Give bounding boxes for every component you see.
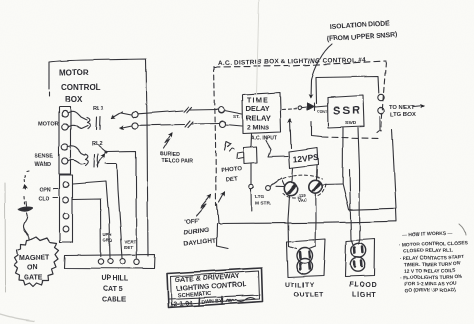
wire junction down to bus bbox=[250, 190, 252, 212]
wire ac input zigzag bbox=[266, 141, 288, 157]
label 115 VAC bbox=[298, 193, 308, 203]
wire RL2 contact down bbox=[105, 164, 123, 259]
svg-text:CONT: CONT bbox=[317, 110, 328, 114]
dashed ring around sockets bbox=[283, 175, 326, 198]
cable break marks lower bbox=[185, 121, 193, 128]
svg-text:DELAY: DELAY bbox=[246, 106, 269, 113]
wire socket L1 to utility bbox=[288, 196, 290, 246]
svg-text:CLO: CLO bbox=[38, 196, 49, 202]
label TO NEXT LTG BOX bbox=[389, 105, 415, 118]
label CONT bbox=[317, 110, 328, 114]
flood light receptacle bbox=[350, 243, 365, 271]
terminal node A bbox=[132, 111, 138, 117]
svg-text:RL2: RL2 bbox=[92, 141, 103, 147]
label UPH GRD bbox=[103, 232, 112, 243]
photo det pointer arrow bbox=[219, 192, 225, 202]
motor control box label bbox=[59, 68, 101, 104]
svg-text:LIGHT: LIGHT bbox=[352, 292, 377, 299]
label PHOTO DET bbox=[221, 166, 243, 183]
bus wire lower bbox=[219, 221, 397, 223]
label CLO bbox=[38, 196, 49, 202]
isolation diode leader arrow bbox=[311, 44, 332, 98]
time delay relay U1 bbox=[243, 93, 282, 134]
terminal strip CAT5 bbox=[64, 255, 155, 269]
title block signature bbox=[226, 298, 255, 302]
relay RL1 coil bbox=[69, 111, 101, 130]
power supply 12VPS bbox=[289, 148, 319, 169]
svg-text:DET: DET bbox=[125, 245, 134, 250]
wire next-box down bbox=[392, 129, 396, 208]
node E bbox=[298, 106, 302, 110]
wire telco pair lower bbox=[138, 124, 219, 126]
svg-text:VAC: VAC bbox=[298, 198, 308, 203]
terminal strip TB1 bbox=[59, 107, 71, 174]
title block text bbox=[175, 273, 248, 299]
utility outlet wires in bbox=[289, 246, 316, 249]
svg-text:LTG: LTG bbox=[255, 194, 265, 200]
arrow to next box bbox=[413, 106, 424, 107]
svg-text:2 MINS: 2 MINS bbox=[247, 125, 270, 132]
terminal node C bbox=[219, 107, 225, 113]
svg-text:FLOOD: FLOOD bbox=[349, 282, 378, 289]
flood light box bbox=[345, 239, 375, 277]
svg-text:CAT 5: CAT 5 bbox=[103, 286, 123, 293]
wire photo det down bbox=[250, 164, 252, 185]
wire 12VPS to socket L2 bbox=[316, 165, 319, 179]
svg-text:UPH: UPH bbox=[103, 232, 112, 237]
svg-text:ST.: ST. bbox=[233, 114, 240, 119]
stray pen mark right bbox=[459, 224, 466, 235]
lamp socket L2 bbox=[309, 180, 322, 193]
scan edge line left bbox=[4, 183, 7, 292]
svg-text:OPN: OPN bbox=[39, 187, 51, 193]
wire socket L2 to utility bbox=[315, 194, 318, 247]
svg-text:WAND: WAND bbox=[34, 162, 51, 168]
bus right end vertical bbox=[395, 208, 398, 221]
svg-text:MOTOR: MOTOR bbox=[59, 68, 89, 77]
lamp socket L1 bbox=[284, 182, 297, 195]
terminal node D bbox=[220, 121, 226, 127]
relay RL2 contacts bbox=[97, 146, 107, 166]
arrow 12VPS up bbox=[290, 119, 291, 149]
wire TB2-2 to cat5 bbox=[73, 199, 101, 257]
svg-text:12-1-04: 12-1-04 bbox=[170, 300, 193, 308]
title block dwn by cell bbox=[199, 296, 223, 306]
wire to time delay in1 bbox=[225, 111, 243, 115]
svg-text:BURIED: BURIED bbox=[160, 152, 180, 158]
gate sensor arrow bbox=[24, 171, 29, 204]
junction node F bbox=[249, 185, 253, 189]
how it works notes bbox=[399, 230, 469, 294]
svg-text:SENSE: SENSE bbox=[34, 154, 53, 160]
svg-text:BOX: BOX bbox=[65, 95, 83, 104]
wire SSR top loop bbox=[316, 77, 379, 105]
svg-text:'OFF': 'OFF' bbox=[184, 217, 201, 225]
svg-text:M STR.: M STR. bbox=[255, 201, 271, 207]
title block outer border bbox=[167, 268, 263, 308]
label RL2 bbox=[92, 141, 103, 147]
AC distrib box dashed outline bottom edge bbox=[322, 137, 381, 139]
photo detector PD1 bbox=[237, 147, 258, 164]
relay RL1 contacts bbox=[111, 112, 132, 129]
off annotation zigzag arrow bbox=[196, 195, 211, 216]
svg-text:A.C. INPUT: A.C. INPUT bbox=[251, 136, 277, 142]
bus wire upper bbox=[349, 208, 396, 210]
AC distrib box dashed outline right edge bbox=[381, 62, 386, 131]
label AC INPUT bbox=[251, 136, 277, 142]
svg-text:OUTLET: OUTLET bbox=[294, 292, 324, 299]
svg-text:RELAY: RELAY bbox=[246, 114, 271, 123]
label VERT DET bbox=[125, 239, 137, 250]
label FLOOD LIGHT bbox=[349, 282, 378, 299]
wire to time delay in2 bbox=[226, 125, 243, 127]
photo det scribble F2 bbox=[224, 142, 234, 152]
terminal next box 2 bbox=[378, 107, 384, 113]
svg-text:LTG BOX: LTG BOX bbox=[390, 112, 415, 118]
label SENSE WAND bbox=[34, 154, 53, 168]
relay RL2 coil bbox=[69, 146, 99, 168]
terminal strip TB2 bbox=[60, 175, 73, 242]
wire flood left feed bbox=[343, 170, 351, 240]
magnet blob bbox=[19, 208, 32, 211]
label ST bbox=[233, 114, 240, 119]
isolation diode annotation bbox=[327, 20, 398, 43]
label OPN bbox=[39, 187, 51, 193]
wire telco pair upper bbox=[138, 110, 218, 114]
wire right edge stub bbox=[377, 117, 380, 133]
svg-text:SWD: SWD bbox=[345, 120, 357, 126]
scan crease mark bbox=[257, 0, 260, 95]
cloud MAGNET ON GATE bbox=[14, 237, 59, 287]
wire magnet to cloud bbox=[23, 202, 29, 240]
label LTG MSTR bbox=[255, 194, 271, 207]
title block inner border bbox=[171, 271, 260, 305]
svg-text:CONTROL: CONTROL bbox=[61, 83, 101, 92]
title block dwn by text bbox=[201, 298, 224, 305]
buried telco arrow bbox=[164, 133, 172, 149]
wire RL2 common down bbox=[108, 151, 137, 258]
wire TB2-1 to cat5 bbox=[73, 182, 110, 258]
label UP HILL CAT 5 CABLE bbox=[101, 276, 129, 304]
wire diode to SSR bbox=[315, 106, 327, 107]
svg-text:ON: ON bbox=[27, 265, 38, 272]
utility outlet receptacle bbox=[297, 248, 313, 275]
wire 12VPS to socket L1 bbox=[292, 168, 293, 181]
svg-text:DET: DET bbox=[226, 176, 239, 183]
label RL1 bbox=[93, 106, 104, 112]
wire delay to photo det bbox=[250, 134, 253, 148]
svg-text:UP HILL: UP HILL bbox=[101, 276, 129, 283]
title block date row bbox=[170, 300, 193, 308]
cloud label bbox=[19, 255, 50, 282]
isolation diode D1 bbox=[308, 104, 315, 111]
12VPS label bbox=[292, 152, 319, 164]
svg-text:VERT: VERT bbox=[125, 239, 137, 244]
svg-text:MAGNET: MAGNET bbox=[19, 255, 50, 262]
utility outlet box bbox=[287, 239, 326, 278]
wire socket L2 to SSR drop bbox=[322, 183, 342, 186]
wire SSR left-bottom drop bbox=[311, 122, 349, 210]
dash-dot control wire bbox=[282, 108, 297, 111]
SSR label bbox=[333, 105, 362, 126]
svg-text:TIME: TIME bbox=[247, 98, 269, 105]
svg-text:UTILITY: UTILITY bbox=[285, 282, 315, 289]
AC distrib box dashed outline top edge bbox=[214, 61, 386, 67]
bus left end up bbox=[217, 204, 219, 224]
AC distrib box dashed outline left edge bbox=[214, 66, 216, 205]
svg-text:TELCO PAIR: TELCO PAIR bbox=[162, 159, 193, 165]
svg-text:SSR: SSR bbox=[333, 105, 362, 117]
svg-text:GATE: GATE bbox=[24, 275, 43, 282]
time delay relay label bbox=[246, 98, 271, 132]
terminal next box 1 bbox=[378, 94, 384, 100]
wire node to diode bbox=[302, 107, 307, 110]
svg-text:CABLE: CABLE bbox=[102, 297, 126, 304]
flood light wires in bbox=[351, 240, 360, 246]
svg-text:MOTOR: MOTOR bbox=[38, 121, 59, 127]
switch LTG MSTR bbox=[266, 179, 285, 191]
SSR box U2 bbox=[328, 96, 365, 128]
tick OPN bbox=[54, 188, 59, 190]
cable break marks upper bbox=[184, 107, 192, 113]
off during daylight annotation bbox=[184, 217, 217, 247]
title block divider bbox=[169, 295, 260, 299]
svg-text:GRD: GRD bbox=[103, 238, 112, 243]
bus left end down stub bbox=[217, 224, 229, 249]
motor control box bbox=[49, 59, 148, 256]
svg-text:RL1: RL1 bbox=[93, 106, 104, 112]
AC distrib box label bbox=[218, 57, 366, 67]
scan mark bottom left bbox=[0, 314, 34, 321]
tick CLO bbox=[53, 197, 58, 199]
wire switch to socket L1 bbox=[276, 186, 285, 188]
svg-text:TO NEXT: TO NEXT bbox=[389, 105, 414, 111]
label BURIED TELCO PAIR bbox=[160, 152, 193, 165]
label UTILITY OUTLET bbox=[285, 282, 324, 299]
wire SSR right-bottom drop to flood bbox=[358, 128, 360, 240]
terminal node B bbox=[132, 122, 138, 128]
label MOTOR bbox=[38, 121, 59, 127]
